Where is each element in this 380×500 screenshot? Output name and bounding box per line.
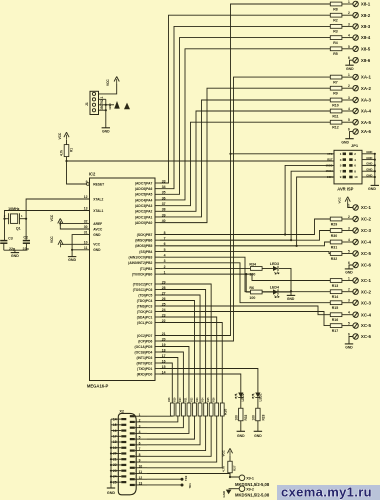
- wire X2 pin 3 to resistor: [147, 416, 183, 428]
- svg-text:GND: GND: [287, 297, 295, 301]
- JP1 pin pads row 1: [343, 153, 346, 156]
- svg-text:R26: R26: [224, 409, 228, 415]
- svg-text:20: 20: [113, 452, 117, 456]
- junction X2 pin 24 gnd: [110, 475, 112, 477]
- X2 pin 19 pad: [121, 447, 126, 449]
- svg-text:3: 3: [348, 227, 350, 231]
- svg-text:R7: R7: [333, 80, 338, 84]
- wire PA3 to XA-5: [160, 122, 330, 205]
- wire PA6 to X8-3: [160, 26, 330, 188]
- svg-text:(INT1)PD3: (INT1)PD3: [137, 356, 153, 360]
- svg-text:RST: RST: [327, 158, 333, 162]
- svg-text:R15: R15: [332, 306, 338, 310]
- wire to terminal: [342, 218, 353, 220]
- wire LED3 to cathode junction: [279, 268, 291, 291]
- svg-text:(TOSC2)PC7: (TOSC2)PC7: [133, 282, 153, 286]
- IC2 pin 27 stub: [155, 294, 160, 296]
- svg-text:R3: R3: [333, 30, 338, 34]
- IC2 pin 33 stub: [155, 182, 160, 184]
- svg-text:R27: R27: [233, 465, 237, 471]
- wire X8-6 to ground: [350, 60, 353, 65]
- power VCC arrow above R1: [66, 135, 68, 140]
- node X8-4 terminal: [353, 35, 358, 40]
- svg-text:(MISO)PB6: (MISO)PB6: [135, 238, 152, 242]
- IC2 pin 24 stub: [155, 311, 160, 313]
- svg-text:GND: GND: [222, 491, 226, 497]
- wire GND pin11: [72, 249, 89, 251]
- svg-text:GND: GND: [102, 130, 110, 134]
- svg-text:(T1)PB1: (T1)PB1: [140, 267, 153, 271]
- X2 pin 7 pad: [130, 449, 135, 451]
- svg-text:X8-5: X8-5: [361, 46, 371, 51]
- svg-text:1: 1: [348, 73, 350, 77]
- junction PB0 branch to LED4: [245, 273, 247, 275]
- resistor R1 4,7k vertical: [64, 145, 69, 157]
- X2 pin 21 pad: [121, 458, 126, 460]
- junction GND pins 31/11: [71, 249, 73, 251]
- wire PB6 branch to R30: [160, 231, 330, 241]
- svg-text:MKDSN1,5/2-5,08: MKDSN1,5/2-5,08: [235, 492, 270, 497]
- wire pin14 RXD to LED2: [160, 374, 241, 393]
- svg-text:10: 10: [139, 464, 143, 468]
- IC2 pin 3 stub: [155, 262, 160, 264]
- svg-text:GND: GND: [11, 254, 19, 258]
- svg-text:XC-1: XC-1: [361, 205, 372, 210]
- svg-text:2: 2: [139, 419, 141, 423]
- svg-text:XC-2: XC-2: [361, 217, 372, 222]
- node XC-1 terminal (group2): [353, 278, 358, 283]
- wire R34 to LED3: [262, 267, 273, 269]
- resistor R16: [330, 313, 342, 317]
- ground J1: [102, 127, 110, 129]
- svg-text:GND: GND: [341, 141, 349, 145]
- resistor R24 vertical: [204, 403, 208, 416]
- wire X2 pin 12 to pad: [147, 478, 182, 480]
- node X9-2 terminal: [239, 486, 245, 492]
- svg-text:XC-3: XC-3: [361, 228, 372, 233]
- node X8-1 terminal: [353, 1, 358, 6]
- svg-text:cxema.my1.ru: cxema.my1.ru: [281, 485, 372, 500]
- wire pin22 PC0 to R26b: [160, 323, 222, 404]
- svg-text:R22: R22: [191, 397, 193, 402]
- power VCC arrow pin10: [60, 242, 62, 247]
- svg-text:MEGA16-P: MEGA16-P: [87, 384, 109, 389]
- resistor R22 vertical: [193, 403, 197, 416]
- svg-text:LED2: LED2: [241, 393, 245, 401]
- svg-text:R30: R30: [331, 234, 337, 238]
- wire caps to ground: [4, 249, 27, 251]
- svg-text:VCC: VCC: [58, 132, 62, 139]
- JP1 pin pads row 2: [343, 158, 346, 161]
- svg-text:(ADC7)PA7: (ADC7)PA7: [135, 181, 153, 185]
- wire JP1 GND stub: [362, 164, 375, 166]
- IC2 pin 35 stub: [155, 193, 160, 195]
- IC2 pin 23 stub: [155, 316, 160, 318]
- wire X2 pin 2 to resistor: [147, 416, 178, 422]
- svg-text:(ADC6)PA6: (ADC6)PA6: [135, 187, 153, 191]
- wire XC-6 to ground: [349, 265, 353, 269]
- wire PB5 to JP1 SCK: [160, 177, 334, 246]
- IC2 pin 39 stub: [155, 216, 160, 218]
- IC2 pin 20 stub: [155, 340, 160, 342]
- IC2 pin 21 stub: [155, 335, 160, 337]
- wire to terminal: [342, 230, 353, 232]
- svg-text:1: 1: [348, 277, 350, 281]
- wire pin17 PD3 to R19: [160, 358, 178, 404]
- node XA-2 terminal: [353, 86, 358, 91]
- svg-text:4: 4: [348, 311, 350, 315]
- JP1 pin pads row 4: [343, 170, 346, 173]
- wire PB4 to R32: [160, 251, 330, 253]
- wire JP1 GND stub: [362, 159, 375, 161]
- svg-text:X9-1: X9-1: [246, 476, 254, 480]
- svg-text:JP1: JP1: [351, 143, 359, 148]
- resistor R30: [330, 229, 342, 233]
- node XC-3 terminal (group2): [353, 300, 358, 305]
- node XC-5 terminal (group1): [353, 251, 358, 256]
- junction crystal left: [3, 218, 5, 220]
- svg-text:LED3: LED3: [270, 262, 279, 266]
- svg-text:X8-6: X8-6: [361, 58, 371, 63]
- svg-text:11: 11: [84, 246, 88, 250]
- power arrow solid at J1 pin3: [106, 104, 114, 106]
- svg-text:AREF: AREF: [93, 222, 102, 226]
- wire to terminal: [342, 76, 353, 78]
- svg-text:11: 11: [139, 470, 143, 474]
- svg-text:(AIN0/INT2)PB2: (AIN0/INT2)PB2: [128, 261, 152, 265]
- resistor R34 100: [251, 267, 263, 271]
- resistor R23 vertical: [198, 403, 202, 416]
- IC2 pin 22 stub: [155, 322, 160, 324]
- svg-text:R29: R29: [331, 222, 337, 226]
- X2 pin 23 pad: [121, 470, 126, 472]
- svg-text:R20: R20: [180, 397, 182, 402]
- resistor R20 vertical: [182, 403, 186, 416]
- svg-text:XA-5: XA-5: [361, 120, 372, 125]
- svg-text:AVCC: AVCC: [93, 227, 103, 231]
- IC2 pin 14 stub: [155, 373, 160, 375]
- svg-text:(MOSI)PB5: (MOSI)PB5: [135, 244, 152, 248]
- wire PB3 to R14: [160, 257, 330, 292]
- svg-text:(ICP)PD6: (ICP)PD6: [138, 339, 152, 343]
- svg-text:5: 5: [348, 322, 350, 326]
- resistor R29: [330, 217, 342, 221]
- svg-text:(ADC1)PA1: (ADC1)PA1: [135, 215, 153, 219]
- node XC-2 terminal (group1): [353, 216, 358, 221]
- svg-text:Q1: Q1: [16, 227, 21, 231]
- wire PB5 branch to R31: [160, 242, 330, 246]
- power VCC arrow at XC-1: [347, 199, 349, 204]
- IC2 pin 6 stub: [155, 245, 160, 247]
- svg-text:3: 3: [348, 22, 350, 26]
- resistor R27 vertical: [220, 403, 224, 416]
- wire R33 to ground: [240, 421, 242, 431]
- resistor R14: [330, 290, 342, 294]
- resistor R15: [330, 301, 342, 305]
- svg-text:R11: R11: [332, 114, 338, 118]
- X2 pin 18 pad: [121, 441, 126, 443]
- wire PD7 long vertical to X8-1: [160, 4, 330, 336]
- resistor R5: [330, 47, 342, 51]
- wire pin26 PC4 to R22: [160, 301, 195, 404]
- IC2 pin 40 stub: [155, 222, 160, 224]
- svg-text:R24: R24: [201, 397, 204, 402]
- wire to terminal: [342, 48, 353, 50]
- svg-text:XA-1: XA-1: [361, 75, 372, 80]
- resistor R2: [330, 13, 342, 17]
- JP1 pin pads row 5: [343, 176, 346, 179]
- junction X2 pin 21 gnd: [110, 458, 112, 460]
- svg-text:R25: R25: [208, 397, 210, 402]
- svg-text:(AIN1/OC0)PB3: (AIN1/OC0)PB3: [128, 255, 152, 259]
- svg-text:R10: R10: [332, 103, 338, 107]
- wire to terminal: [342, 87, 353, 89]
- wire to terminal: [342, 280, 353, 282]
- wire JP1 GND stub: [362, 176, 375, 178]
- svg-text:GND: GND: [345, 270, 353, 274]
- wire R6 to LED4: [262, 291, 273, 293]
- resistor R6 100: [251, 290, 263, 294]
- svg-text:LED1: LED1: [258, 393, 262, 401]
- svg-text:3: 3: [348, 299, 350, 303]
- wire VTG branch from X8-1 vertical: [231, 153, 335, 155]
- svg-text:J1: J1: [85, 102, 89, 106]
- svg-text:R8: R8: [333, 7, 338, 11]
- svg-text:(ADC0)PA0: (ADC0)PA0: [135, 221, 153, 225]
- power VCC arrow AREF/AVCC: [59, 221, 61, 226]
- svg-text:12: 12: [139, 476, 143, 480]
- svg-text:(TXD)PD1: (TXD)PD1: [137, 367, 152, 371]
- svg-text:1: 1: [348, 0, 350, 4]
- svg-text:6: 6: [348, 128, 350, 132]
- svg-text:XC-1: XC-1: [361, 278, 372, 283]
- arrow glyph right of J1: [124, 103, 130, 110]
- svg-text:X9-2: X9-2: [246, 487, 254, 491]
- ground XC-6 (group1): [345, 268, 353, 270]
- power VCC arrow above R27: [229, 451, 231, 456]
- wire X2 pin 8 to resistor: [147, 416, 211, 456]
- svg-text:4: 4: [139, 430, 141, 434]
- wire PB7 branch to R29: [160, 219, 330, 235]
- wire to terminal: [342, 25, 353, 27]
- svg-text:X8-1: X8-1: [361, 2, 371, 7]
- IC2 pin 16 stub: [155, 362, 160, 364]
- svg-text:100: 100: [235, 415, 239, 421]
- ground X2: [107, 487, 115, 489]
- wire LED1 to resistor: [257, 398, 259, 409]
- wire X2 pin 10 to resistor: [147, 416, 222, 468]
- IC U1 MEGA16-P body: [90, 178, 156, 381]
- svg-text:10: 10: [354, 175, 358, 179]
- capacitor C2 22p: [25, 219, 27, 241]
- svg-text:XA-4: XA-4: [361, 109, 372, 114]
- svg-text:13: 13: [84, 207, 88, 211]
- svg-text:1: 1: [139, 413, 141, 417]
- svg-text:X2: X2: [119, 409, 124, 413]
- wire to terminal: [342, 253, 353, 255]
- svg-text:R31: R31: [331, 245, 337, 249]
- svg-text:XTAL2: XTAL2: [93, 197, 103, 201]
- resistor R17: [330, 324, 342, 328]
- junction VTG branch: [229, 153, 231, 155]
- svg-text:VCC: VCC: [221, 449, 225, 456]
- wire JP1 GND bus: [374, 154, 376, 185]
- junction RESET/ISP: [65, 160, 67, 162]
- svg-text:22: 22: [113, 463, 117, 467]
- node XC-3 terminal (group1): [353, 228, 358, 233]
- svg-text:5: 5: [139, 436, 141, 440]
- svg-text:R32: R32: [331, 257, 337, 261]
- svg-text:X8-4: X8-4: [361, 35, 371, 40]
- wire PA5 to X8-4: [160, 38, 330, 195]
- X2 pin 8 pad: [130, 455, 135, 457]
- resistor R13: [330, 279, 342, 283]
- svg-text:GND: GND: [108, 103, 112, 109]
- svg-text:XTAL1: XTAL1: [93, 209, 103, 213]
- svg-text:TD2: TD2: [184, 475, 188, 481]
- svg-text:GND: GND: [93, 248, 101, 252]
- wire pin23 PC1 to R26: [160, 317, 217, 403]
- X2 pin 16 pad: [121, 429, 126, 431]
- node XC-4 terminal (group2): [353, 312, 358, 317]
- wire to terminal: [342, 14, 353, 16]
- svg-text:VCC: VCC: [338, 196, 342, 203]
- svg-text:23: 23: [113, 469, 117, 473]
- svg-text:4: 4: [348, 34, 350, 38]
- svg-text:(TMS)PC3: (TMS)PC3: [137, 304, 153, 308]
- ground LED2: [237, 430, 245, 432]
- wire GND pin31: [72, 235, 89, 250]
- IC2 pin 1 stub: [155, 273, 160, 275]
- wire PA2 to XA-4: [160, 111, 330, 211]
- node X8-3 terminal: [353, 24, 358, 29]
- power VCC arrow at J1: [116, 79, 118, 84]
- wire pin19 PD5 to R21: [160, 347, 189, 404]
- svg-text:12: 12: [84, 195, 88, 199]
- pad at pin 13: [181, 483, 184, 486]
- wire to terminal: [342, 3, 353, 5]
- svg-text:GND: GND: [366, 156, 372, 160]
- wire PA4 to X8-5: [160, 49, 330, 200]
- X2 pin 5 pad: [130, 438, 135, 440]
- wire to terminal: [342, 121, 353, 123]
- ground LED1: [254, 430, 262, 432]
- wire pin25 PC3 to R16: [160, 306, 330, 315]
- resistor R19 vertical: [176, 403, 180, 416]
- ground XC-6 (group2): [345, 343, 353, 345]
- svg-text:(SS)PB4: (SS)PB4: [139, 250, 152, 254]
- ground JP1: [371, 184, 379, 186]
- svg-text:(OC1B)PD4: (OC1B)PD4: [135, 350, 153, 354]
- wire LED2 to resistor: [240, 398, 242, 409]
- wire pin27 PC5 to R23: [160, 295, 200, 403]
- junction PB5 branch: [296, 245, 298, 247]
- svg-text:R6: R6: [249, 286, 254, 290]
- resistor R18 vertical: [170, 403, 174, 416]
- svg-text:4: 4: [348, 107, 350, 111]
- node XA-1 terminal: [353, 74, 358, 79]
- svg-text:XA-6: XA-6: [361, 129, 372, 134]
- svg-text:100: 100: [249, 296, 255, 300]
- svg-text:(INT0)PD2: (INT0)PD2: [137, 361, 153, 365]
- wire XTAL1 net: [5, 211, 90, 219]
- junction R27/X9-1: [229, 476, 231, 478]
- svg-text:XC-4: XC-4: [361, 312, 372, 317]
- IC2 pin 8 stub: [155, 234, 160, 236]
- ground X8-6: [345, 64, 353, 66]
- svg-text:15: 15: [113, 423, 117, 427]
- IC2 pin 25 stub: [155, 305, 160, 307]
- svg-text:R33: R33: [244, 414, 248, 420]
- X2 pin 6 pad: [130, 444, 135, 446]
- wire PA0 to XA-2: [160, 88, 330, 222]
- wire JP1 GND stub: [362, 153, 375, 155]
- svg-text:R5: R5: [333, 52, 338, 56]
- junction LED cathodes: [290, 290, 292, 292]
- wire to terminal: [342, 99, 353, 101]
- svg-text:GND: GND: [345, 345, 353, 349]
- node XC-1 terminal (group1): [353, 205, 358, 210]
- wire to terminal: [342, 325, 353, 327]
- svg-text:(TCK)PC2: (TCK)PC2: [137, 310, 153, 314]
- junction X2 pin 25 gnd: [110, 481, 112, 483]
- X2 pin 1 pad: [130, 415, 135, 417]
- wire X2 pin 11 to X9-1: [147, 474, 239, 478]
- svg-text:XC-2: XC-2: [361, 289, 372, 294]
- resistor R4: [330, 36, 342, 40]
- svg-text:3: 3: [139, 424, 141, 428]
- svg-text:XC-6: XC-6: [361, 263, 372, 268]
- X2 pin 17 pad: [121, 435, 126, 437]
- junction crystal right: [25, 218, 27, 220]
- svg-text:(SCL)PC0: (SCL)PC0: [137, 321, 152, 325]
- resistor R26 vertical: [215, 403, 219, 416]
- resistor R8: [330, 2, 342, 6]
- wire X2 pin 4 to resistor: [147, 416, 189, 433]
- ground IC2 left: [68, 256, 76, 258]
- svg-text:C2: C2: [23, 235, 28, 239]
- node X8-5 terminal: [353, 46, 358, 51]
- svg-text:GND: GND: [93, 233, 101, 237]
- node XA-3 terminal: [353, 97, 358, 102]
- node XA-4 terminal: [353, 108, 358, 113]
- svg-text:XC-4: XC-4: [361, 240, 372, 245]
- svg-text:6: 6: [348, 333, 350, 337]
- wire X2 pin 1 to resistor: [147, 415, 172, 417]
- X2 pin 20 pad: [121, 452, 126, 454]
- svg-text:5: 5: [348, 45, 350, 49]
- node XC-6 terminal (group2): [353, 334, 358, 339]
- X2 pin 25 pad: [121, 481, 126, 483]
- svg-text:(TDO)PC4: (TDO)PC4: [137, 299, 153, 303]
- svg-text:R9: R9: [333, 92, 338, 96]
- svg-text:GND: GND: [346, 67, 354, 71]
- svg-text:4,7k: 4,7k: [60, 150, 64, 156]
- svg-text:C3: C3: [8, 237, 13, 241]
- svg-text:GND: GND: [237, 434, 245, 438]
- svg-text:(RXD)PD0: (RXD)PD0: [137, 372, 153, 376]
- svg-text:5: 5: [348, 118, 350, 122]
- node X8-6 terminal: [353, 58, 358, 63]
- wire pin15 TXD to LED1: [160, 369, 258, 393]
- svg-text:3: 3: [348, 96, 350, 100]
- resistor R10: [330, 98, 342, 102]
- svg-text:32: 32: [84, 220, 88, 224]
- wire to terminal: [342, 241, 353, 243]
- svg-text:GND: GND: [366, 150, 372, 154]
- wire RESET to AVR-ISP RST row: [67, 160, 335, 162]
- wire R28 to ground: [257, 421, 259, 431]
